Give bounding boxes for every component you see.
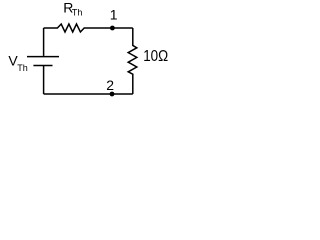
svg-text:10Ω: 10Ω (143, 48, 168, 65)
svg-text:Th: Th (17, 63, 28, 73)
wire top-left vertical (source to top wire) (43, 28, 45, 56)
svg-text:Th: Th (72, 8, 83, 18)
resistor R1 (R_Th) with top wire (44, 24, 133, 32)
battery V_Th negative plate (33, 65, 52, 67)
svg-text:2: 2 (106, 77, 114, 93)
wire bottom-left vertical (battery to bottom wire) (43, 66, 45, 95)
battery V_Th positive plate (27, 56, 59, 58)
wire bottom (44, 93, 133, 95)
node 2 junction dot (110, 92, 115, 97)
node 1 junction dot (110, 26, 115, 31)
resistor R2 (10 ohm) with right wire (128, 28, 137, 94)
svg-text:1: 1 (110, 7, 118, 23)
